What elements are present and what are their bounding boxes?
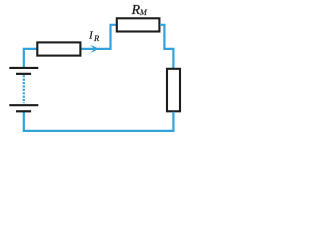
resistor R1 <box>37 42 80 55</box>
battery cell dashed middle <box>23 75 25 103</box>
resistor R_M <box>117 18 160 31</box>
wire: R_M right stepping down to right resistor <box>160 25 174 69</box>
svg-text:M: M <box>139 8 148 17</box>
svg-text:I: I <box>88 30 93 42</box>
svg-text:R: R <box>93 33 100 43</box>
battery plate long bottom <box>9 104 38 106</box>
resistor right (vertical) <box>167 69 180 112</box>
battery plate long top <box>9 67 38 69</box>
battery plate short bottom <box>16 110 31 112</box>
battery plate short top <box>16 73 31 75</box>
wire: resistor R1 right toward riser <box>81 48 111 50</box>
wire: riser up to R_M left <box>111 25 117 50</box>
arrowhead current I_R <box>90 45 99 53</box>
wire: right resistor bottom, along bottom, up to battery negative <box>24 112 174 131</box>
wire: battery positive up and right to resistor R1 <box>24 49 37 67</box>
